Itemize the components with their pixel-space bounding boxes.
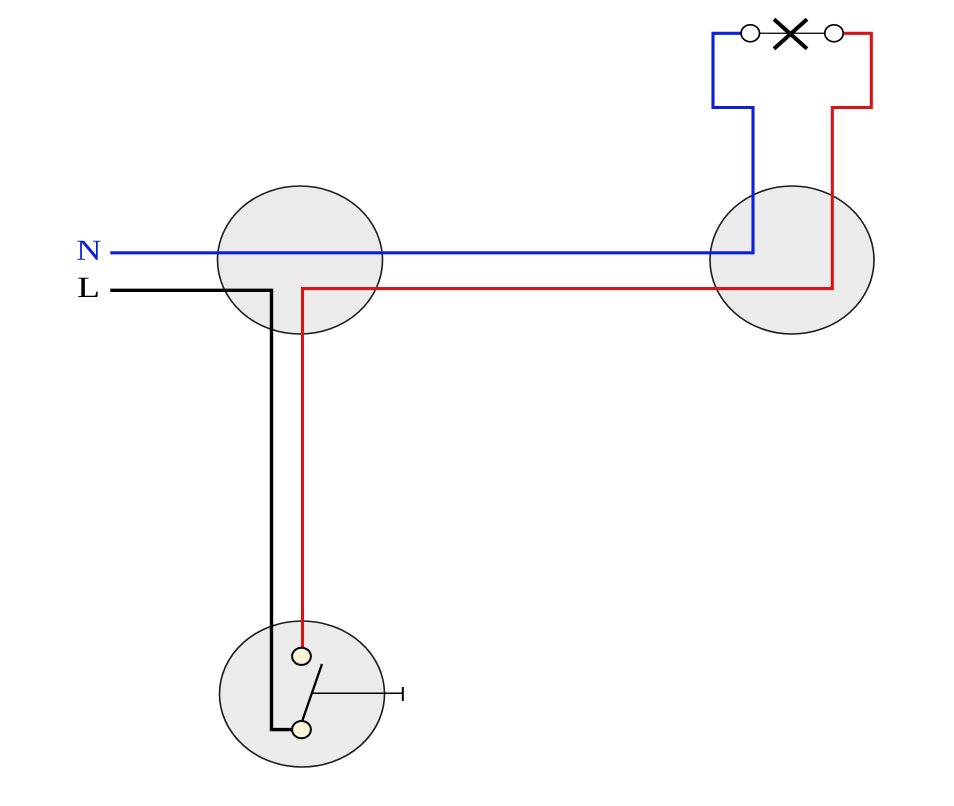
- lamp E1 left terminal: [741, 25, 759, 42]
- switch S1 actuator rod: [312, 692, 403, 694]
- switch S1 actuator end tick: [402, 687, 404, 701]
- wire L (line, black): [110, 290, 292, 729]
- lamp E1 right terminal: [825, 25, 843, 42]
- lamp E1 base line: [750, 32, 834, 34]
- switch S1 top terminal: [292, 648, 311, 665]
- junction box J2 (right): [710, 186, 874, 334]
- label L: [78, 278, 97, 297]
- wire N (neutral, blue): [110, 33, 753, 253]
- wire switched-live (red): [303, 33, 872, 647]
- label N: [77, 241, 101, 260]
- switch S1 bottom terminal: [292, 721, 311, 738]
- junction box J1 (left): [218, 186, 383, 334]
- lamp E1 cross: [774, 19, 807, 48]
- switch S1 lever: [302, 664, 322, 721]
- switch box S1: [220, 621, 385, 767]
